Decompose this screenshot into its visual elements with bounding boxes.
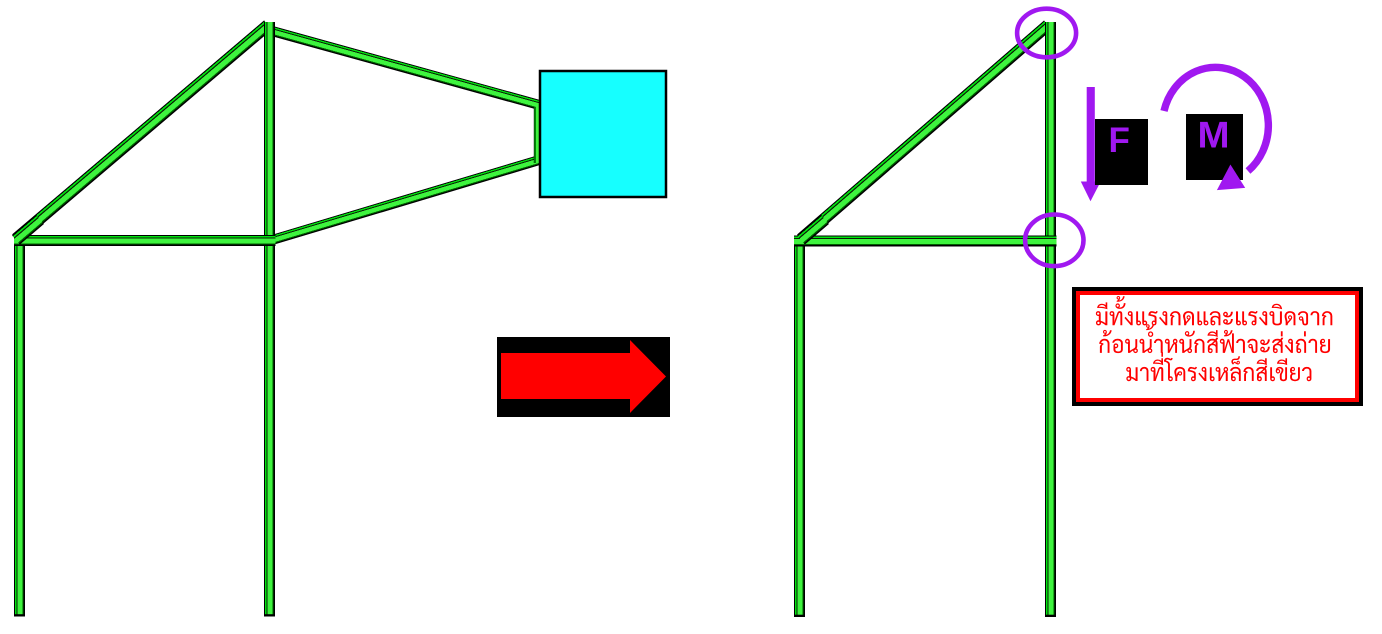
svg-text:F: F [1109,121,1130,160]
svg-text:M: M [1198,114,1230,155]
